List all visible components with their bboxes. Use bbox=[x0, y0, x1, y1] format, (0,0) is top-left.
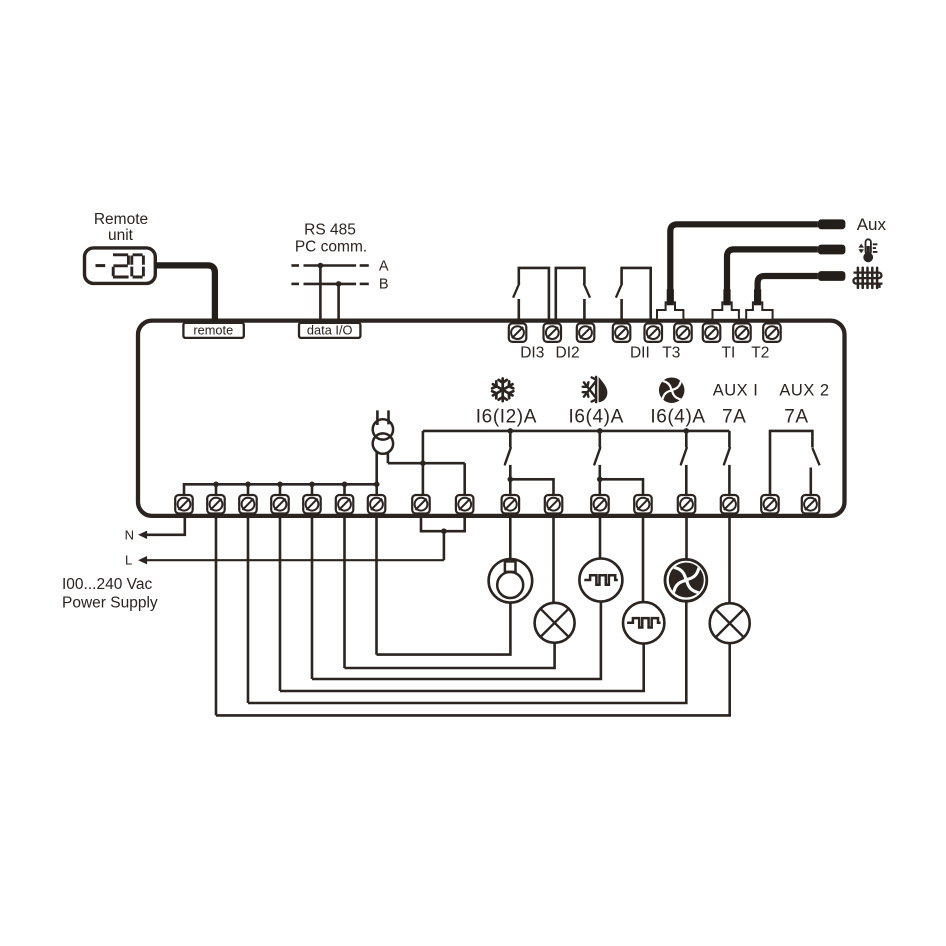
bottom terminal load return 5 bbox=[336, 495, 354, 514]
wire compressor feed bbox=[509, 514, 512, 560]
bottom terminal defrost out b bbox=[634, 495, 652, 514]
wire transformer left lead to neutral bus bbox=[375, 452, 378, 485]
transformer bbox=[373, 410, 393, 453]
svg-text:unit: unit bbox=[108, 227, 134, 244]
aux lamp E2 bbox=[710, 603, 750, 643]
remote unit display bbox=[85, 248, 156, 284]
room light lamp E1 bbox=[535, 603, 575, 643]
node bus defrost bbox=[597, 428, 603, 434]
power supply label bbox=[62, 576, 158, 612]
top terminal T1 a bbox=[703, 323, 721, 342]
svg-text:AUX 2: AUX 2 bbox=[779, 382, 829, 400]
wire fan return bbox=[248, 601, 686, 703]
wire return riser 2 bbox=[247, 514, 250, 704]
svg-text:N: N bbox=[125, 527, 134, 542]
top terminal DI1 a bbox=[613, 323, 631, 342]
wire lamp1 return bbox=[345, 643, 555, 668]
svg-text:TI: TI bbox=[722, 345, 736, 362]
evaporator fan M2 bbox=[665, 559, 707, 601]
RS485 line A bbox=[291, 258, 388, 274]
bottom terminal load return 1 bbox=[207, 495, 225, 514]
svg-text:L: L bbox=[125, 553, 132, 568]
svg-text:data I/O: data I/O bbox=[307, 323, 353, 338]
node bus fan bbox=[684, 428, 690, 434]
wire live to terminal L1 bbox=[422, 463, 425, 495]
RS 485 PC comm. label bbox=[295, 222, 367, 256]
svg-text:7A: 7A bbox=[722, 407, 746, 428]
wire return riser 6 bbox=[375, 514, 378, 655]
top terminal DI2 b bbox=[577, 323, 595, 342]
svg-text:T2: T2 bbox=[751, 345, 769, 362]
svg-text:Aux: Aux bbox=[857, 215, 887, 234]
defrost icon bbox=[583, 377, 596, 402]
probe cable T1 bbox=[727, 249, 818, 291]
compressor relay contact bbox=[509, 431, 512, 448]
bottom terminal aux1 out bbox=[721, 495, 739, 514]
wire L terminal link bbox=[421, 514, 465, 561]
wire compressor return bbox=[377, 603, 511, 655]
svg-text:I00...240 Vac: I00...240 Vac bbox=[62, 576, 152, 593]
svg-text:remote: remote bbox=[193, 323, 233, 338]
L arrow bbox=[138, 556, 147, 564]
bottom terminal load return 3 bbox=[271, 495, 289, 514]
bottom terminal compressor out b bbox=[545, 495, 563, 514]
wire heater1 return bbox=[312, 602, 601, 680]
node live/riser junction bbox=[420, 460, 426, 466]
wire live to terminal L2 bbox=[463, 463, 466, 495]
svg-text:DI3: DI3 bbox=[520, 345, 544, 362]
aux1 relay contact bbox=[728, 431, 731, 448]
svg-text:T3: T3 bbox=[662, 345, 680, 362]
data I/O terminal label bbox=[299, 323, 360, 338]
bottom terminal aux2 a bbox=[761, 495, 779, 514]
bottom terminal fan out bbox=[678, 495, 696, 514]
probe plug T2 bbox=[746, 302, 772, 318]
bottom terminal load return 2 bbox=[239, 495, 257, 514]
DI1 switch bbox=[616, 268, 651, 319]
bottom terminal load return 4 bbox=[303, 495, 321, 514]
DI2 switch bbox=[556, 268, 590, 319]
N wire bbox=[146, 514, 185, 535]
probe cable T3 to Aux bbox=[670, 224, 818, 291]
wire return riser 5 bbox=[343, 514, 346, 669]
node bus compressor bbox=[508, 428, 514, 434]
evaporator coil icon bbox=[853, 268, 882, 288]
N arrow bbox=[138, 531, 147, 539]
defrost heater R1 bbox=[579, 559, 622, 602]
remote terminal label bbox=[183, 323, 243, 338]
DI3 switch bbox=[513, 268, 549, 319]
relay common bus bbox=[423, 430, 730, 433]
aux2 relay contact blade bbox=[812, 448, 819, 465]
bottom terminal line L b bbox=[456, 495, 474, 514]
svg-text:AUX I: AUX I bbox=[713, 382, 759, 400]
drain heater R2 bbox=[623, 602, 664, 643]
wire lamp2 return bbox=[216, 643, 730, 715]
svg-text:7A: 7A bbox=[784, 407, 808, 428]
defrost relay contact bbox=[598, 431, 601, 448]
bottom terminal load return 6 bbox=[368, 495, 386, 514]
wire fan feed bbox=[685, 514, 688, 561]
L wire bbox=[146, 559, 444, 561]
fan relay contact bbox=[685, 431, 688, 448]
probe cable T2 bbox=[758, 276, 818, 291]
bottom terminal line L a bbox=[412, 495, 430, 514]
top terminal T2 b bbox=[763, 323, 781, 342]
wire lamp1 feed bbox=[552, 514, 555, 604]
wire transformer right lead bbox=[387, 452, 390, 463]
top terminal T1 b / T2 a bbox=[733, 323, 751, 342]
wire return riser 4 bbox=[311, 514, 314, 680]
remote cable bbox=[155, 265, 215, 321]
T1 connector bbox=[818, 245, 846, 255]
bottom terminal compressor out a bbox=[502, 495, 519, 514]
fan icon bbox=[659, 377, 685, 403]
wire B to data I/O bbox=[337, 284, 340, 321]
svg-text:B: B bbox=[379, 277, 389, 293]
compressor snowflake icon bbox=[492, 379, 513, 402]
svg-text:RS 485: RS 485 bbox=[304, 222, 356, 239]
aux2 circuit bbox=[770, 431, 812, 495]
wire live riser to relay bus bbox=[422, 431, 425, 463]
svg-text:DI2: DI2 bbox=[556, 345, 580, 362]
bottom terminal defrost out a bbox=[591, 495, 609, 514]
bottom terminal N bbox=[175, 495, 193, 514]
Aux connector bbox=[818, 219, 846, 229]
svg-text:A: A bbox=[379, 258, 389, 274]
wire heater2 return bbox=[280, 644, 644, 692]
controller main box bbox=[138, 321, 845, 516]
probe plug T3 bbox=[657, 302, 683, 318]
defrost output link bbox=[597, 477, 643, 496]
wire lamp2 feed bbox=[728, 514, 731, 604]
thermometer icon bbox=[858, 239, 877, 262]
bottom terminal aux2 b bbox=[802, 495, 820, 514]
wire live node horizontal bbox=[388, 462, 465, 465]
wire heater2 feed bbox=[642, 514, 645, 603]
wire heater1 feed bbox=[599, 514, 602, 559]
wire return riser 1 bbox=[215, 514, 218, 716]
svg-text:Power Supply: Power Supply bbox=[62, 595, 158, 612]
top terminal T3 b bbox=[674, 323, 692, 342]
neutral bus bbox=[184, 482, 380, 496]
compressor M1 bbox=[489, 559, 533, 603]
svg-text:Remote: Remote bbox=[94, 211, 148, 228]
T2 connector bbox=[818, 271, 846, 281]
svg-text:I6(4)A: I6(4)A bbox=[650, 407, 705, 428]
top terminal DI1 b / T3 a bbox=[645, 323, 663, 342]
wire return riser 3 bbox=[279, 514, 282, 692]
svg-text:DII: DII bbox=[630, 345, 650, 362]
probe plug T1 bbox=[713, 302, 739, 318]
svg-text:I6(4)A: I6(4)A bbox=[569, 407, 624, 428]
Remote unit label bbox=[94, 211, 148, 244]
top terminal DI3 a bbox=[509, 323, 527, 342]
svg-text:PC comm.: PC comm. bbox=[295, 239, 367, 256]
compressor output link bbox=[508, 477, 554, 496]
top terminal DI3 b / DI2 a bbox=[544, 323, 562, 342]
svg-text:I6(I2)A: I6(I2)A bbox=[476, 407, 537, 428]
RS485 line B bbox=[291, 277, 388, 293]
wire A to data I/O bbox=[319, 266, 322, 322]
